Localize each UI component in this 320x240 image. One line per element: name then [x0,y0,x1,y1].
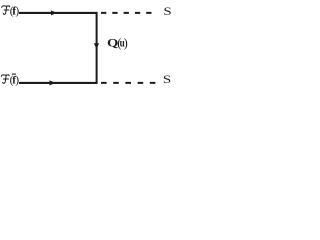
wire: bottom outgoing scalar dashed line [101,82,156,84]
wire: top incoming fermion line f [19,12,97,14]
bar over f in f-bar [12,73,16,75]
arrow on vertical propagator (pointing down) [94,43,99,49]
node: label F(f) top-left [2,6,10,14]
svg-text:S: S [163,5,171,18]
background [0,0,189,90]
svg-text:): ) [15,74,19,86]
node: label F(f-bar) bottom-left [1,75,9,83]
svg-text:): ) [124,36,128,50]
svg-text:): ) [15,5,19,17]
svg-text:S: S [163,73,171,86]
arrow on top fermion line [51,10,57,15]
wire: bottom incoming fermion line f-bar [19,82,97,84]
wire: vertical internal propagator [96,12,98,84]
arrow on bottom fermion line [49,80,55,85]
wire: top outgoing scalar dashed line [101,12,152,14]
